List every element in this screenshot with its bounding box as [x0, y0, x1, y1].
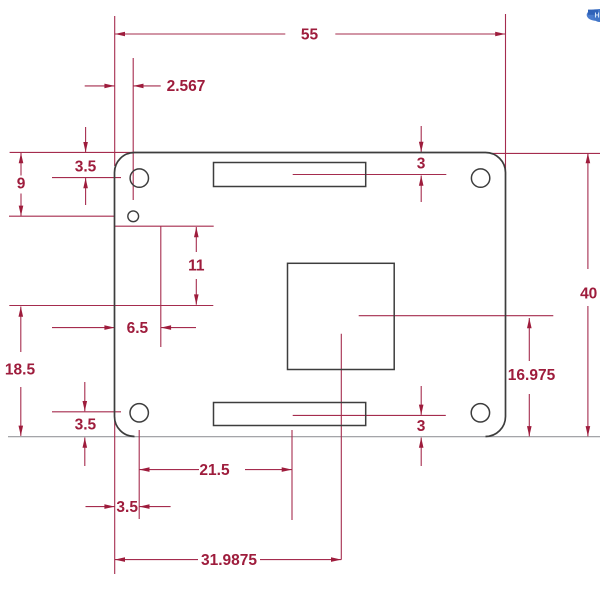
svg-text:2.567: 2.567 — [167, 78, 206, 95]
svg-text:21.5: 21.5 — [199, 462, 230, 479]
svg-text:Hi: Hi — [595, 13, 600, 20]
svg-text:3.5: 3.5 — [75, 158, 97, 175]
svg-text:16.975: 16.975 — [508, 367, 556, 384]
svg-text:9: 9 — [17, 175, 26, 192]
svg-text:55: 55 — [301, 26, 319, 43]
svg-text:31.9875: 31.9875 — [201, 552, 257, 569]
svg-text:3: 3 — [417, 156, 426, 173]
svg-text:40: 40 — [580, 286, 597, 303]
svg-text:6.5: 6.5 — [127, 320, 149, 337]
svg-text:3.5: 3.5 — [75, 416, 97, 433]
svg-text:18.5: 18.5 — [5, 362, 36, 379]
svg-text:11: 11 — [188, 257, 205, 274]
svg-text:3.5: 3.5 — [116, 499, 138, 516]
svg-text:3: 3 — [417, 418, 426, 435]
